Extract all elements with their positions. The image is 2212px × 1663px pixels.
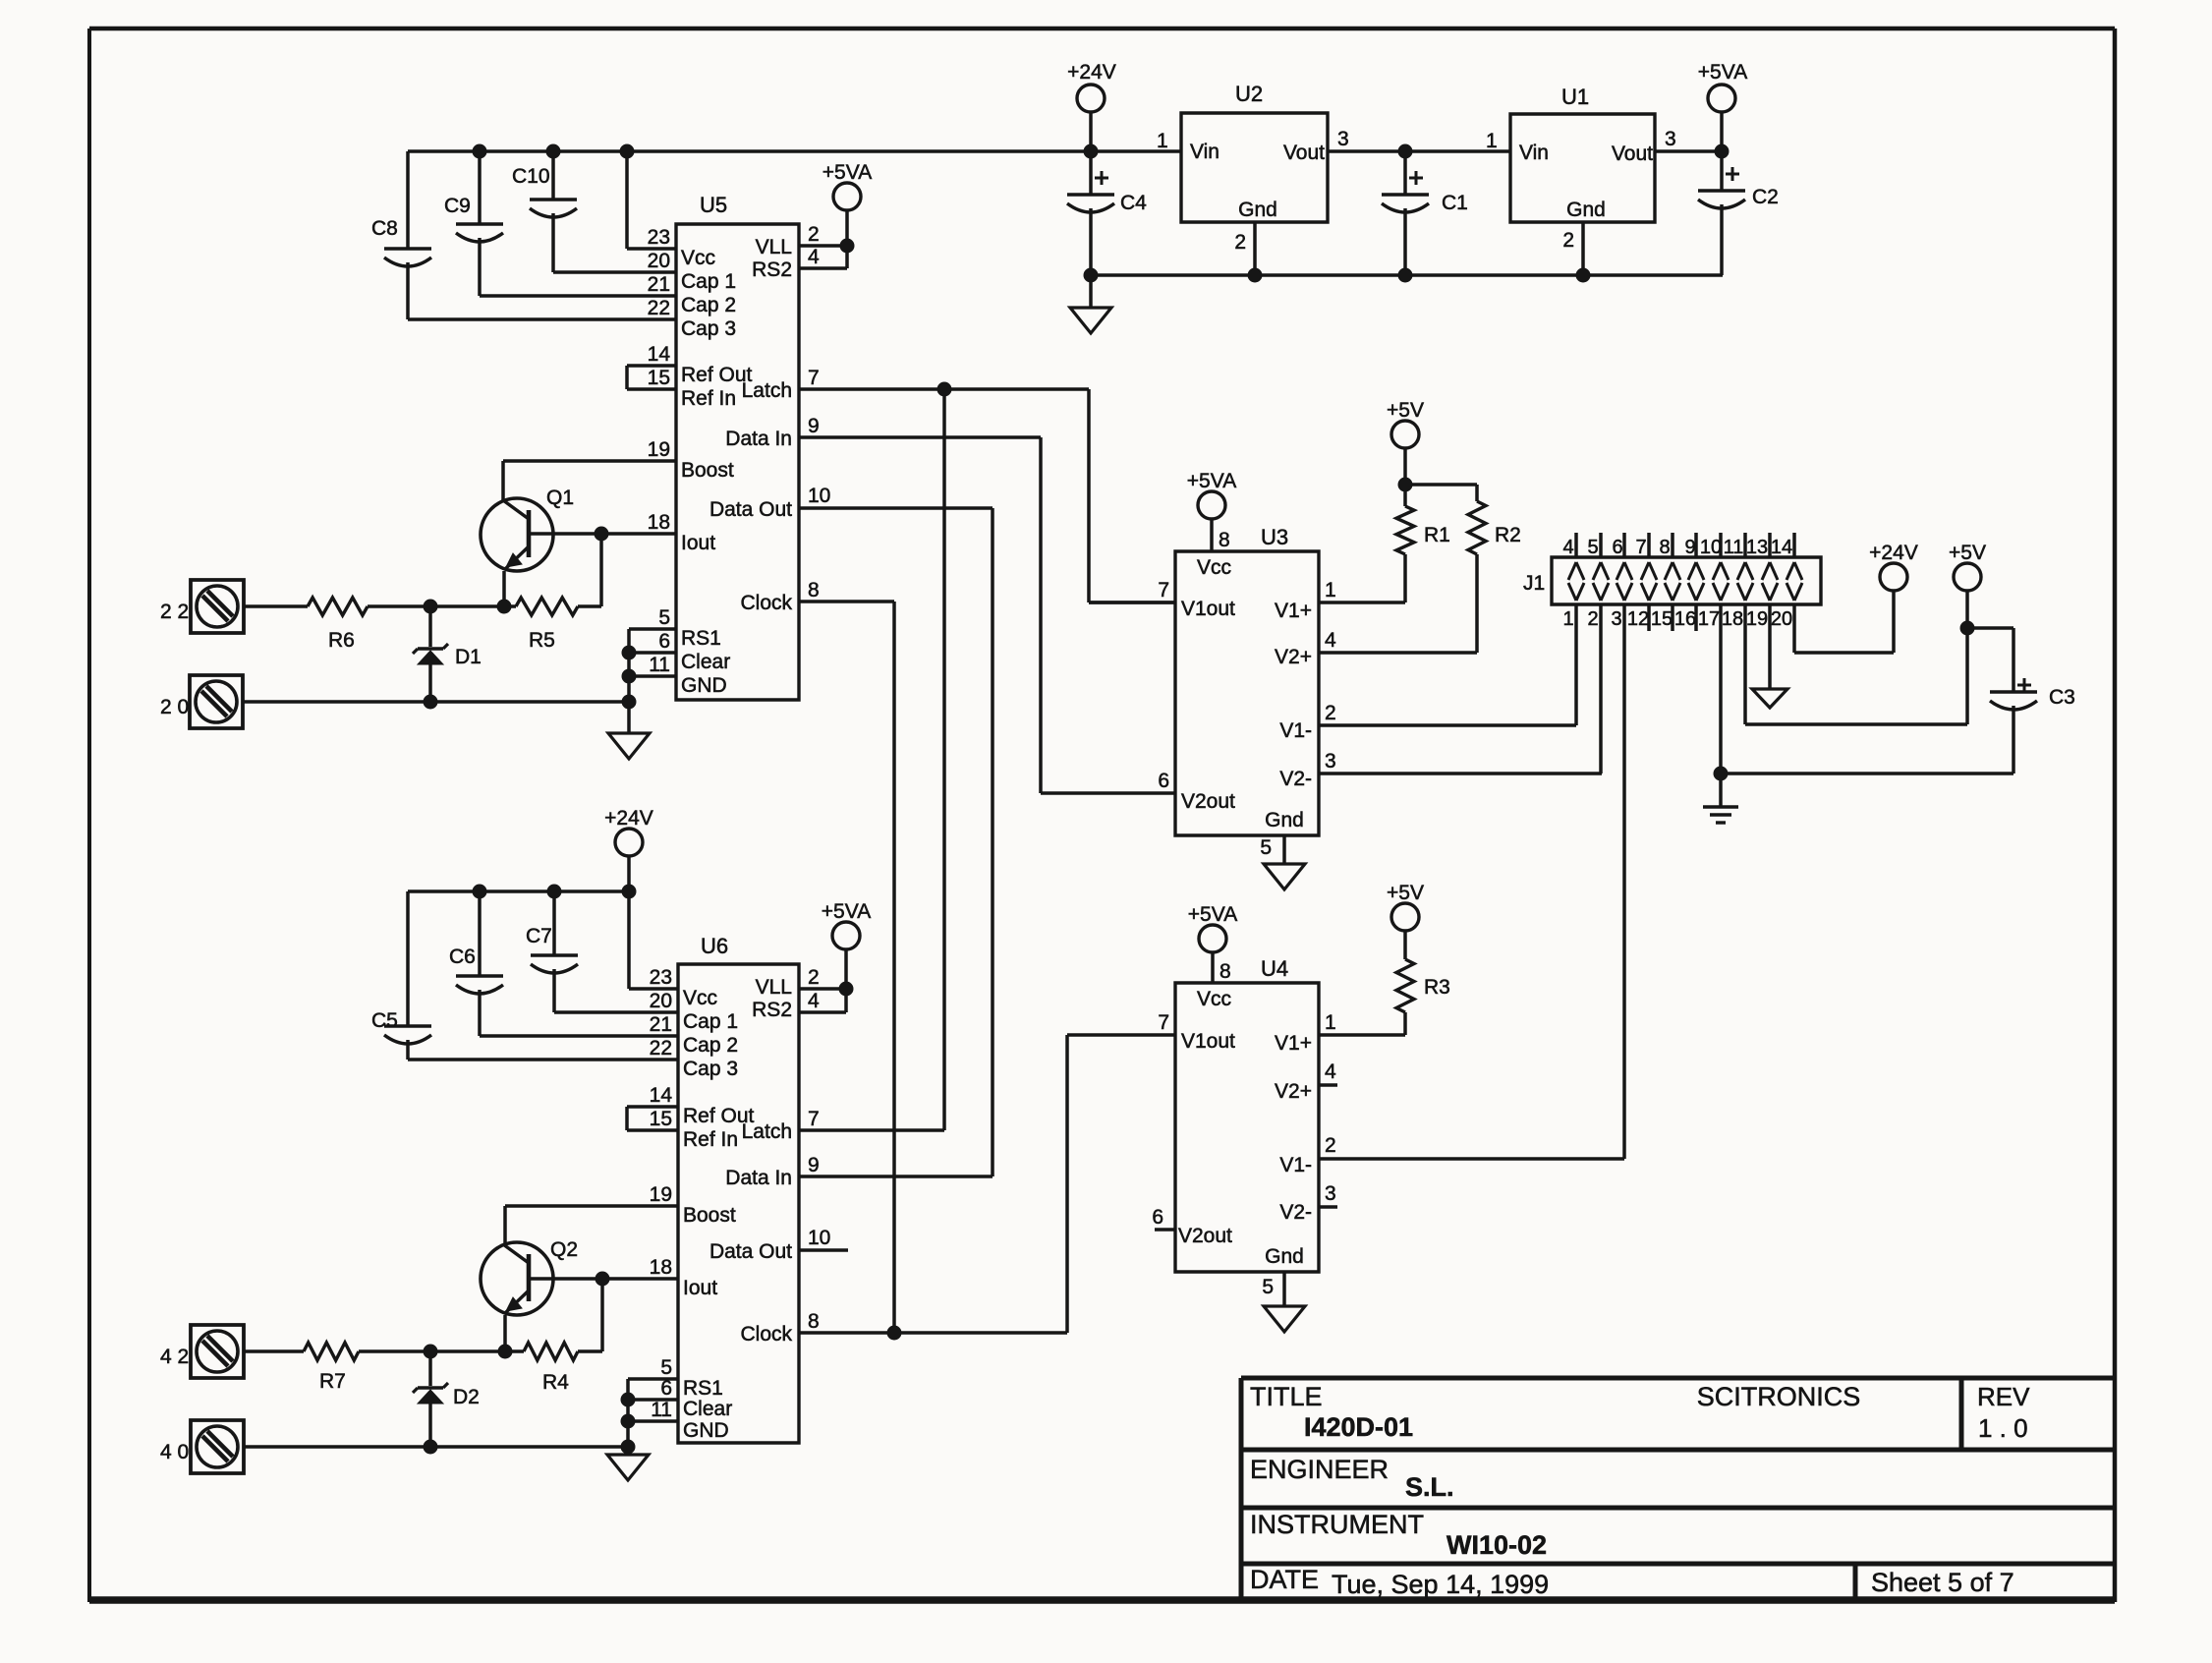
svg-text:3: 3 [1325,1182,1336,1205]
svg-text:Vcc: Vcc [681,247,715,269]
svg-text:INSTRUMENT: INSTRUMENT [1250,1510,1424,1539]
svg-text:U1: U1 [1561,85,1589,109]
svg-text:+24V: +24V [1067,61,1116,84]
svg-text:Vout: Vout [1283,142,1325,164]
svg-text:14: 14 [1771,537,1792,558]
svg-text:+5VA: +5VA [1188,903,1237,926]
svg-text:2: 2 [1325,1134,1336,1157]
svg-text:9: 9 [808,1154,820,1176]
svg-text:Iout: Iout [683,1277,717,1299]
svg-text:Cap 2: Cap 2 [683,1034,738,1057]
svg-text:U6: U6 [701,934,728,958]
svg-text:Gnd: Gnd [1238,199,1277,221]
svg-text:10: 10 [1700,537,1722,558]
svg-text:C9: C9 [444,195,471,217]
svg-text:+5V: +5V [1387,399,1424,422]
svg-text:3: 3 [1337,128,1349,150]
svg-text:7: 7 [808,367,820,389]
svg-text:8: 8 [1219,960,1231,983]
svg-text:Clear: Clear [683,1398,732,1420]
svg-text:Gnd: Gnd [1265,809,1304,831]
svg-text:13: 13 [1746,537,1768,558]
svg-text:R3: R3 [1424,976,1450,999]
svg-text:5: 5 [1587,537,1598,558]
svg-text:9: 9 [808,415,820,437]
svg-text:22: 22 [650,1037,672,1060]
svg-text:7: 7 [1635,537,1646,558]
svg-text:J1: J1 [1523,572,1545,595]
svg-text:2: 2 [808,966,820,989]
svg-text:2: 2 [1234,231,1246,254]
svg-text:+5VA: +5VA [822,161,872,184]
svg-text:V2+: V2+ [1275,646,1312,668]
svg-text:Ref In: Ref In [683,1128,738,1151]
svg-text:7: 7 [1158,579,1169,602]
svg-text:RS1: RS1 [683,1377,723,1400]
svg-text:Cap 3: Cap 3 [681,317,736,340]
svg-text:SCITRONICS: SCITRONICS [1697,1382,1861,1411]
svg-text:2: 2 [808,223,820,246]
svg-text:+5V: +5V [1949,542,1986,564]
svg-text:Vcc: Vcc [1197,988,1231,1010]
svg-text:Iout: Iout [681,532,715,554]
svg-text:D1: D1 [455,646,482,668]
svg-text:6: 6 [1152,1206,1163,1229]
svg-text:+24V: +24V [1869,542,1918,564]
svg-text:1: 1 [1157,130,1168,152]
svg-text:U4: U4 [1261,956,1288,981]
svg-text:23: 23 [648,226,670,249]
svg-text:14: 14 [650,1084,673,1107]
svg-text:U3: U3 [1261,525,1288,549]
svg-text:6: 6 [1612,537,1622,558]
svg-text:V2out: V2out [1181,790,1235,813]
svg-text:Ref In: Ref In [681,387,736,410]
svg-text:2: 2 [1587,608,1598,630]
svg-text:Vin: Vin [1190,141,1219,163]
svg-text:8: 8 [1659,537,1670,558]
svg-text:7: 7 [808,1108,820,1130]
svg-text:18: 18 [1722,608,1743,630]
svg-text:+24V: +24V [604,807,653,830]
svg-text:16: 16 [1674,608,1696,630]
svg-text:V1-: V1- [1279,719,1312,742]
svg-text:5: 5 [1260,836,1272,859]
svg-text:11: 11 [651,1399,672,1421]
svg-text:Vcc: Vcc [683,987,717,1009]
svg-text:2: 2 [1562,229,1574,252]
svg-text:7: 7 [1158,1011,1169,1034]
svg-text:21: 21 [650,1013,672,1036]
svg-text:C4: C4 [1120,192,1147,214]
svg-text:Latch: Latch [742,1120,792,1143]
svg-text:Gnd: Gnd [1566,199,1606,221]
svg-text:C1: C1 [1442,192,1468,214]
svg-text:6: 6 [1158,770,1169,792]
svg-text:Boost: Boost [681,459,734,482]
svg-text:C8: C8 [371,217,398,240]
svg-text:Tue, Sep 14, 1999: Tue, Sep 14, 1999 [1332,1570,1549,1599]
svg-text:Clear: Clear [681,651,730,673]
svg-text:V1+: V1+ [1275,1032,1312,1055]
svg-text:19: 19 [650,1183,672,1206]
svg-text:Vout: Vout [1612,143,1653,165]
svg-text:15: 15 [650,1108,672,1130]
svg-text:V2+: V2+ [1275,1080,1312,1103]
svg-text:20: 20 [648,250,670,272]
svg-text:V1-: V1- [1279,1154,1312,1176]
svg-text:1: 1 [1562,608,1573,630]
svg-text:R7: R7 [319,1370,346,1393]
svg-text:C3: C3 [2049,686,2075,709]
svg-text:Cap 1: Cap 1 [683,1010,738,1033]
svg-text:4 2: 4 2 [160,1346,189,1368]
svg-text:Vcc: Vcc [1197,556,1231,579]
svg-text:U2: U2 [1235,82,1263,106]
svg-text:4: 4 [1562,537,1573,558]
svg-text:R2: R2 [1495,524,1521,546]
svg-text:Cap 3: Cap 3 [683,1058,738,1080]
svg-text:VLL: VLL [756,236,792,258]
svg-text:RS2: RS2 [752,999,792,1021]
svg-text:2: 2 [1325,702,1336,724]
svg-text:I420D-01: I420D-01 [1304,1412,1413,1442]
svg-text:ENGINEER: ENGINEER [1250,1455,1389,1484]
svg-text:4: 4 [1325,1061,1336,1083]
svg-text:RS1: RS1 [681,627,721,650]
svg-text:8: 8 [808,1310,820,1333]
svg-text:C5: C5 [371,1009,398,1032]
svg-text:Data In: Data In [725,428,792,450]
svg-text:2 0: 2 0 [160,696,189,718]
svg-text:Q1: Q1 [546,487,574,509]
svg-text:20: 20 [1771,608,1792,630]
svg-text:Data Out: Data Out [709,498,792,521]
svg-text:GND: GND [683,1419,729,1442]
svg-text:18: 18 [650,1256,672,1279]
svg-text:8: 8 [1219,529,1230,551]
svg-text:4: 4 [1325,629,1336,652]
svg-text:4: 4 [808,246,820,268]
svg-text:S.L.: S.L. [1405,1472,1454,1502]
svg-text:Latch: Latch [742,379,792,402]
svg-text:3: 3 [1325,750,1336,773]
svg-text:Data In: Data In [725,1167,792,1189]
svg-text:18: 18 [648,511,670,534]
svg-text:Cap 1: Cap 1 [681,270,736,293]
svg-text:1 . 0: 1 . 0 [1978,1413,2028,1443]
svg-text:R6: R6 [328,629,355,652]
svg-text:TITLE: TITLE [1250,1382,1323,1411]
svg-text:V1+: V1+ [1275,600,1312,622]
svg-text:19: 19 [1746,608,1768,630]
svg-text:RS2: RS2 [752,258,792,281]
svg-text:V1out: V1out [1181,598,1235,620]
svg-text:17: 17 [1698,608,1720,630]
svg-text:C10: C10 [512,165,550,188]
svg-text:+5VA: +5VA [1698,61,1747,84]
svg-text:V2-: V2- [1279,1201,1312,1224]
svg-text:23: 23 [650,966,672,989]
svg-text:Vin: Vin [1519,142,1549,164]
svg-text:10: 10 [808,1227,830,1249]
svg-text:Data Out: Data Out [709,1240,792,1263]
svg-text:15: 15 [648,367,670,389]
svg-text:Sheet 5 of 7: Sheet 5 of 7 [1871,1568,2014,1597]
svg-text:5: 5 [658,606,670,629]
svg-text:3: 3 [1665,128,1676,150]
svg-text:C2: C2 [1752,186,1779,208]
svg-text:+5VA: +5VA [1187,470,1236,492]
svg-text:2 2: 2 2 [160,601,189,623]
svg-text:+5VA: +5VA [822,900,871,923]
svg-text:C6: C6 [449,946,476,968]
svg-text:Clock: Clock [740,1323,792,1346]
svg-text:9: 9 [1684,537,1695,558]
svg-text:V1out: V1out [1181,1030,1235,1053]
svg-text:4: 4 [808,990,820,1012]
svg-text:D2: D2 [453,1386,480,1408]
svg-text:GND: GND [681,674,727,697]
svg-text:5: 5 [1262,1276,1274,1298]
svg-text:6: 6 [660,1377,672,1400]
svg-text:U5: U5 [700,193,727,217]
svg-text:19: 19 [648,438,670,461]
svg-text:C7: C7 [526,925,552,947]
svg-text:Cap 2: Cap 2 [681,294,736,316]
svg-text:4 0: 4 0 [160,1441,189,1463]
svg-text:WI10-02: WI10-02 [1446,1530,1547,1560]
svg-text:8: 8 [808,579,820,602]
svg-text:20: 20 [650,990,672,1012]
svg-text:22: 22 [648,297,670,319]
svg-text:+5V: +5V [1387,882,1424,904]
svg-text:V2out: V2out [1178,1225,1232,1247]
svg-text:R4: R4 [542,1371,569,1394]
svg-text:VLL: VLL [756,976,792,999]
svg-text:12: 12 [1627,608,1649,630]
svg-text:21: 21 [648,273,670,296]
svg-text:5: 5 [660,1356,672,1379]
svg-text:R5: R5 [529,629,555,652]
svg-text:Q2: Q2 [550,1238,578,1261]
svg-text:15: 15 [1651,608,1673,630]
svg-text:11: 11 [649,654,670,676]
svg-text:6: 6 [658,630,670,653]
svg-text:R1: R1 [1424,524,1450,546]
svg-text:14: 14 [648,343,671,366]
svg-text:Boost: Boost [683,1204,736,1227]
svg-text:Gnd: Gnd [1265,1245,1304,1268]
svg-text:10: 10 [808,485,830,507]
svg-text:1: 1 [1325,1011,1336,1034]
svg-text:1: 1 [1486,130,1498,152]
svg-text:DATE: DATE [1250,1565,1319,1594]
svg-text:REV: REV [1977,1382,2030,1411]
svg-text:Clock: Clock [740,592,792,614]
svg-text:3: 3 [1611,608,1621,630]
svg-text:11: 11 [1724,537,1744,558]
svg-text:V2-: V2- [1279,768,1312,790]
svg-text:1: 1 [1325,579,1336,602]
